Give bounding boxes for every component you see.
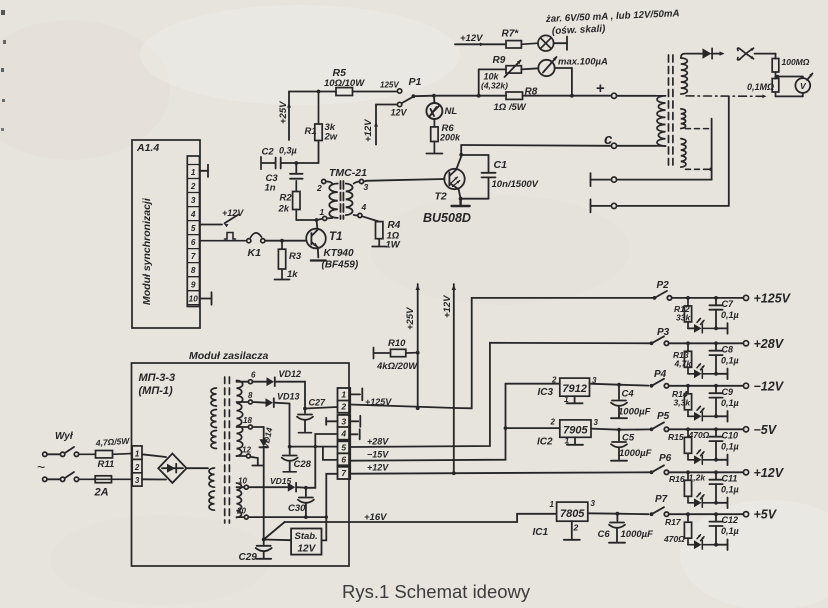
node R16 top (686, 470, 690, 474)
capacitor C4 (611, 385, 627, 417)
label MP-3-3 (139, 372, 176, 384)
svg-text:1Ω /5W: 1Ω /5W (494, 102, 527, 113)
wire cell6 branch (323, 447, 338, 460)
svg-text:0,1MΩ: 0,1MΩ (747, 82, 774, 92)
wire +16V diagonal (264, 522, 285, 540)
capacitor C2 (262, 158, 295, 169)
svg-text:C2: C2 (262, 147, 275, 158)
label C28 (294, 459, 312, 470)
svg-text:3: 3 (591, 499, 596, 508)
label C4 (622, 389, 635, 400)
svg-text:IC2: IC2 (537, 437, 553, 448)
switch P7 (650, 507, 669, 516)
R6 ground bar (426, 153, 442, 155)
svg-text:(МП-1): (МП-1) (139, 385, 174, 397)
node LED cathode 5 (714, 458, 718, 462)
svg-text:IC3: IC3 (538, 387, 554, 398)
svg-text:+28V: +28V (754, 337, 785, 351)
wire C3 node to R1 (296, 141, 318, 164)
relay contact K1 (247, 233, 265, 243)
terminal +12V (743, 470, 748, 475)
+12V riser arrow (452, 284, 456, 473)
LED D7 (694, 534, 714, 549)
svg-text:C5: C5 (622, 433, 635, 444)
svg-text:T1: T1 (329, 231, 342, 243)
wire row P3 (669, 342, 744, 344)
T1 emitter ground (311, 259, 326, 261)
label 7805 (560, 508, 585, 520)
label R12 (674, 304, 691, 323)
label TMC-21 (329, 167, 367, 179)
svg-text:+28V: +28V (367, 437, 389, 447)
output connector cells 1-2 (338, 388, 351, 413)
wire IC3 out to P4 (619, 384, 649, 387)
HV core (669, 55, 673, 165)
ground bar row 2 (716, 323, 728, 334)
label R4 (386, 220, 401, 251)
svg-text:100MΩ: 100MΩ (782, 57, 810, 67)
label 4 (361, 202, 367, 212)
svg-text:1: 1 (550, 500, 555, 509)
output connector numbers (340, 390, 347, 479)
label P7 (655, 494, 668, 505)
resistor R1 (315, 92, 322, 141)
label C11 (722, 473, 738, 483)
wire +125V row (350, 298, 653, 408)
svg-text:(4,32k): (4,32k) (481, 81, 508, 91)
svg-text:Stab.: Stab. (295, 531, 318, 542)
svg-text:+25V: +25V (405, 307, 416, 330)
C4 ground bar (611, 417, 627, 419)
label P6 (659, 453, 672, 464)
svg-text:5: 5 (191, 224, 196, 233)
node T2 emitter (459, 197, 463, 201)
output connector cell 7 (338, 467, 351, 479)
label R1 (305, 122, 338, 143)
12V feed to P1 (374, 105, 397, 145)
svg-text:BU508D: BU508D (423, 211, 471, 225)
diode VD13 (253, 398, 290, 444)
svg-text:3: 3 (364, 182, 369, 192)
label pin2 IC2 (550, 418, 556, 427)
svg-text:C12: C12 (722, 515, 739, 525)
node R13 top (686, 341, 690, 345)
svg-text:Moduł zasilacza: Moduł zasilacza (189, 350, 269, 362)
svg-text:1k: 1k (287, 269, 298, 280)
svg-text:VD15: VD15 (270, 476, 292, 486)
label IC3 (538, 387, 554, 398)
svg-text:0,1µ: 0,1µ (721, 310, 739, 320)
label C5 (622, 433, 635, 444)
label tap6 (251, 371, 256, 380)
ground bar row 6 (716, 498, 728, 509)
svg-text:+125V: +125V (365, 397, 392, 407)
svg-text:2: 2 (190, 182, 196, 191)
svg-text:R9: R9 (493, 55, 506, 66)
label +125V module (365, 397, 392, 407)
mains switch bottom (43, 472, 79, 481)
label 3 (364, 182, 369, 192)
svg-text:2: 2 (134, 463, 140, 472)
wire IC2 out to P5 (619, 428, 650, 430)
svg-text:P3: P3 (657, 327, 670, 338)
svg-text:Wył: Wył (55, 431, 74, 442)
svg-text:R1: R1 (305, 126, 317, 137)
secondary winding A (237, 381, 243, 457)
svg-text:1W: 1W (386, 240, 401, 251)
wire R9 branch up (479, 69, 506, 95)
label tap18 (243, 416, 252, 425)
wire R9 to meter (521, 68, 538, 69)
label +28V (754, 337, 785, 351)
label C10 (722, 430, 739, 440)
label Stab (295, 531, 318, 542)
label P5 (657, 411, 670, 422)
svg-text:C30: C30 (288, 503, 306, 514)
svg-text:+12V: +12V (460, 33, 483, 44)
fuse 2A (79, 476, 133, 483)
capacitor C7 (709, 298, 722, 329)
IC2 box 7905 (560, 420, 591, 437)
node LED cathode 6 (714, 501, 718, 505)
rectifier diode HV (703, 48, 717, 58)
svg-text:2w: 2w (324, 132, 338, 143)
label tap8 (248, 391, 253, 400)
IC3 input wire (506, 383, 560, 385)
TMC core (341, 181, 344, 219)
svg-text:2A: 2A (94, 487, 109, 499)
label max.100uA (558, 57, 608, 68)
wire terminal3 bus (617, 119, 712, 180)
label &#8722;12V (754, 379, 785, 393)
node NL (432, 94, 436, 98)
svg-text:+125V: +125V (754, 291, 792, 305)
svg-text:C28: C28 (294, 459, 312, 470)
svg-text:NL: NL (445, 106, 458, 117)
label 0,1u C10 (721, 441, 739, 451)
node LED cathode 4 (714, 414, 718, 418)
label R15 (668, 430, 710, 442)
module zasilacza outline (132, 363, 350, 566)
label R17 (663, 517, 685, 544)
label pin1 IC2 (565, 436, 570, 446)
mid coil dashed lead (686, 128, 711, 130)
svg-text:0,1µ: 0,1µ (721, 484, 739, 494)
node cell4 join (314, 445, 317, 448)
scanner specks (1, 10, 6, 131)
label P3 (657, 327, 670, 338)
svg-text:R10: R10 (388, 338, 406, 349)
tap 12 (237, 454, 258, 465)
svg-text:2k: 2k (278, 204, 290, 215)
label 7905 (563, 425, 588, 437)
HV mid secondary coil (681, 109, 686, 129)
capacitor C5 (611, 430, 627, 460)
wire VD12 node to pin2 (305, 407, 338, 409)
label 0,1u C9 (721, 398, 739, 408)
label C1 (494, 159, 508, 171)
label +16V (364, 512, 387, 523)
svg-text:−15V: −15V (367, 450, 389, 460)
A1.4 pin dividers (187, 165, 199, 305)
IC1 ground pin (564, 521, 580, 540)
svg-text:0,3µ: 0,3µ (279, 146, 297, 156)
module transformer primary coils (211, 388, 217, 449)
switch P5 (650, 422, 669, 431)
node VD14 C29 (262, 538, 266, 542)
label +28V module (367, 437, 389, 447)
module transformer core (225, 377, 230, 523)
svg-text:KT940: KT940 (324, 248, 354, 259)
switch P4 (650, 379, 669, 388)
R9 wiper arrow (505, 60, 522, 77)
svg-text:1: 1 (565, 436, 570, 446)
label R7* (502, 29, 520, 40)
label Modul synchronizacji (141, 197, 153, 305)
svg-text:4: 4 (340, 429, 346, 439)
tap 8 (237, 400, 253, 404)
svg-text:R17: R17 (665, 517, 682, 527)
bottom coil dashed lead (686, 168, 709, 170)
svg-text:0,1µ: 0,1µ (721, 441, 739, 451)
capacitor C1 (461, 155, 496, 199)
capacitor C6 (609, 514, 625, 542)
label +25V mid (405, 307, 416, 330)
label +12V mid (442, 295, 453, 318)
svg-text:C6: C6 (598, 529, 611, 540)
label plus (596, 80, 605, 97)
label V (800, 81, 807, 91)
TMC left coil (329, 184, 338, 218)
label 1ohm 5W (494, 102, 527, 113)
resistor R6 (431, 119, 438, 153)
terminal &#8722;5V (743, 427, 748, 432)
A1.4 pin numbers 1-10 (189, 168, 199, 303)
pin 1 terminal stub (200, 165, 209, 177)
wire diode feed (685, 53, 702, 55)
voltmeter bottom wire (776, 93, 803, 97)
label 1000uF C5 (619, 448, 652, 459)
svg-text:0,1µ: 0,1µ (721, 355, 739, 365)
svg-text:6: 6 (341, 455, 346, 465)
wire TMC pin3 to T2 base (364, 179, 444, 182)
wire stab to C29 node (264, 539, 291, 542)
node C9 top (714, 384, 718, 388)
HV primary coil (656, 96, 666, 146)
A1.4 pin column (187, 156, 199, 307)
svg-text:1000µF: 1000µF (621, 529, 654, 540)
switch P2 (653, 291, 672, 300)
label A1.4 (136, 142, 159, 154)
dash-dot return line (686, 95, 767, 99)
capacitor C3 (290, 163, 303, 179)
resistor R13 (684, 343, 693, 374)
label +12V (754, 466, 785, 480)
ground bar row 7 (716, 539, 728, 550)
switch P1 (397, 89, 413, 107)
resistor R3 (278, 243, 285, 279)
wire +28V node (290, 446, 338, 448)
label 0,1MOhm (747, 82, 774, 92)
svg-text:3: 3 (191, 196, 196, 205)
svg-text:1,2k: 1,2k (689, 473, 707, 483)
wire bridge out (187, 467, 209, 469)
R3 ground bar (275, 279, 290, 281)
label NL (445, 106, 458, 117)
LED D2 (694, 318, 714, 333)
wire pin20 row (248, 516, 326, 518)
IC3 box 7912 (560, 378, 590, 396)
label Wyl (55, 431, 74, 442)
svg-text:18: 18 (243, 416, 252, 425)
svg-text:R8: R8 (525, 87, 538, 98)
node C7 top (714, 296, 718, 300)
diode VD14 (253, 427, 269, 539)
node LED cathode 7 (714, 543, 718, 547)
node R15 top (686, 427, 690, 431)
IC3 output wire (590, 384, 620, 385)
wire row P2 (672, 297, 744, 299)
svg-text:33k: 33k (676, 313, 691, 323)
label 0,1u C7 (721, 310, 739, 320)
label tap20 (236, 507, 246, 516)
svg-text:8: 8 (248, 391, 253, 400)
svg-text:1000µF: 1000µF (619, 448, 652, 459)
resistor R4 (376, 222, 383, 246)
C2 terminal bar (260, 157, 262, 169)
label C6 (598, 529, 611, 540)
label +12V module (367, 463, 389, 473)
node C2/C3/R1 (294, 161, 298, 165)
svg-text:9: 9 (191, 280, 196, 289)
svg-text:+12V: +12V (442, 295, 453, 318)
svg-text:P7: P7 (655, 494, 668, 505)
label pin3 IC2 (594, 418, 599, 427)
node divider (776, 75, 779, 78)
svg-text:1n: 1n (265, 183, 276, 194)
LED D6 (694, 492, 714, 507)
label 10n/1500V (492, 179, 539, 190)
label +125V (754, 291, 792, 305)
label pin1 IC3 (564, 394, 569, 404)
label pin2 IC1 (573, 523, 579, 533)
resistor R8 (506, 92, 523, 99)
node R1 top (317, 90, 321, 94)
svg-text:+: + (596, 80, 605, 97)
label 0,1u C8 (721, 355, 739, 365)
svg-text:R16: R16 (669, 474, 685, 484)
svg-text:10: 10 (189, 294, 199, 303)
module transformer primary lower (209, 468, 215, 510)
svg-text:IC1: IC1 (533, 527, 549, 538)
svg-text:VD12: VD12 (279, 369, 302, 379)
label 1000uF C6 (621, 529, 654, 540)
cell1 stub (350, 388, 362, 400)
label C9 (722, 387, 734, 397)
wire row P4 (669, 385, 744, 387)
terminal 4th (611, 203, 616, 208)
svg-text:7: 7 (191, 252, 196, 261)
svg-text:max.100µA: max.100µA (558, 57, 608, 68)
label (4,32k) (481, 81, 508, 91)
resistor R11 (79, 451, 133, 458)
capacitor C28 (282, 447, 298, 471)
wire K1 to T1 base (265, 240, 306, 242)
lamp bulb (521, 35, 553, 51)
label +12V pin5 (222, 208, 244, 218)
label R14 (672, 389, 691, 408)
C27 ground bar (299, 432, 312, 434)
svg-text:C27: C27 (309, 398, 327, 408)
wire row P6 (669, 471, 744, 473)
label 2 (316, 183, 322, 193)
resistor 100M (772, 59, 779, 77)
svg-text:R4: R4 (388, 220, 401, 231)
svg-text:10: 10 (238, 477, 247, 486)
svg-text:C9: C9 (722, 387, 734, 397)
tap 10 (237, 485, 249, 489)
wire gap to R100M (755, 54, 776, 59)
HV bottom secondary coil (681, 139, 686, 168)
label +12V lamp (460, 33, 483, 44)
svg-text:4,7k: 4,7k (674, 359, 693, 369)
label K1 (248, 247, 262, 259)
wire pin4 to R4 (362, 216, 379, 221)
label c (604, 131, 613, 148)
C5 ground bar (611, 460, 627, 462)
wire terminal4 bus (617, 96, 729, 206)
node C11 top (714, 470, 718, 474)
svg-text:VD13: VD13 (277, 392, 300, 402)
label +5V (754, 508, 778, 522)
label VD14 (260, 426, 274, 449)
svg-text:12: 12 (242, 446, 251, 455)
IC2 output wire (591, 429, 619, 430)
svg-text:3: 3 (341, 416, 346, 426)
label 100MOhm (782, 57, 810, 67)
+25V riser arrow (416, 284, 420, 408)
potentiometer R9 (506, 66, 521, 73)
label R5 (324, 67, 365, 89)
label R3 (287, 251, 302, 280)
node pin20 riser (325, 515, 328, 518)
svg-text:C1: C1 (494, 159, 508, 171)
meter uA (538, 57, 557, 77)
resistor R2 (293, 181, 315, 220)
terminal 3rd bar (591, 173, 612, 186)
wire R5 row (289, 91, 397, 93)
node T1 collector (315, 218, 319, 222)
svg-text:P5: P5 (657, 411, 670, 422)
label 4,7Ohm/5W (94, 436, 130, 448)
wire T2 collector to c row (460, 145, 462, 155)
svg-text:7805: 7805 (560, 508, 585, 520)
resistor R17 (684, 514, 693, 545)
node LED cathode 3 (714, 372, 718, 376)
T2 internal arrows (451, 177, 461, 187)
node LED cathode 2 (714, 327, 718, 331)
label VD12 (279, 369, 302, 379)
module A1.4 outline (132, 140, 200, 328)
IC2 ground pin (567, 437, 583, 445)
label 2A (94, 487, 109, 499)
resistor R12 (684, 298, 693, 329)
svg-text:4kΩ/20W: 4kΩ/20W (376, 361, 418, 372)
C29 ground bar (256, 558, 271, 560)
label C12 (722, 515, 739, 525)
wire c row (461, 144, 656, 147)
svg-text:+5V: +5V (754, 508, 778, 522)
